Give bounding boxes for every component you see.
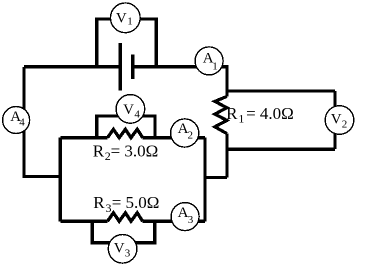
resistor R1 zigzag <box>215 96 227 133</box>
voltmeter V3 circle <box>108 235 137 264</box>
svg-text:1: 1 <box>238 111 244 125</box>
svg-text:V: V <box>114 241 125 257</box>
voltmeter V2 circle <box>325 106 354 135</box>
svg-text:R: R <box>93 193 105 212</box>
wire R3 branch <box>60 220 205 223</box>
resistor R3 zigzag <box>108 213 143 222</box>
wire V3 loop <box>92 221 154 243</box>
wire V4 loop <box>97 116 155 138</box>
svg-text:V: V <box>116 10 127 26</box>
svg-text:3: 3 <box>188 214 194 226</box>
wire R2 branch <box>60 136 205 139</box>
svg-text:V: V <box>123 102 134 118</box>
ammeter A2 circle <box>171 119 199 147</box>
svg-text:= 4.0Ω: = 4.0Ω <box>246 104 294 123</box>
svg-text:1: 1 <box>127 16 133 28</box>
battery short plate <box>131 55 135 79</box>
wire top main right segment <box>134 65 227 68</box>
ammeter A1 circle <box>195 47 223 75</box>
wire A2-A3 vertical <box>203 138 206 222</box>
svg-text:4: 4 <box>134 108 140 120</box>
voltmeter V1 circle <box>110 3 140 33</box>
svg-text:2: 2 <box>342 119 348 131</box>
svg-text:R: R <box>93 141 105 160</box>
wire V1 loop <box>97 19 157 67</box>
ammeter A3 circle <box>171 203 199 231</box>
resistor R2 zigzag <box>108 129 143 137</box>
wire top main left segment <box>24 65 119 68</box>
svg-text:V: V <box>331 112 342 128</box>
wire R1 vertical <box>225 65 228 177</box>
svg-text:4: 4 <box>19 116 25 128</box>
battery long plate <box>118 43 122 91</box>
svg-text:R: R <box>226 104 238 123</box>
svg-text:2: 2 <box>188 129 194 141</box>
wire right loop right vertical <box>333 91 336 149</box>
ammeter A4 circle <box>3 107 30 134</box>
wire left branch (through A4) <box>24 67 60 177</box>
svg-text:3: 3 <box>106 201 112 215</box>
voltmeter V4 circle <box>116 95 145 124</box>
svg-text:1: 1 <box>212 60 218 72</box>
svg-text:= 3.0Ω: = 3.0Ω <box>111 141 159 160</box>
wire step junction <box>205 176 227 179</box>
svg-text:= 5.0Ω: = 5.0Ω <box>112 193 160 212</box>
wire middle box left edge <box>59 138 62 222</box>
wire right loop top <box>227 89 335 92</box>
wire right loop bottom <box>227 148 335 151</box>
svg-text:3: 3 <box>125 248 131 260</box>
